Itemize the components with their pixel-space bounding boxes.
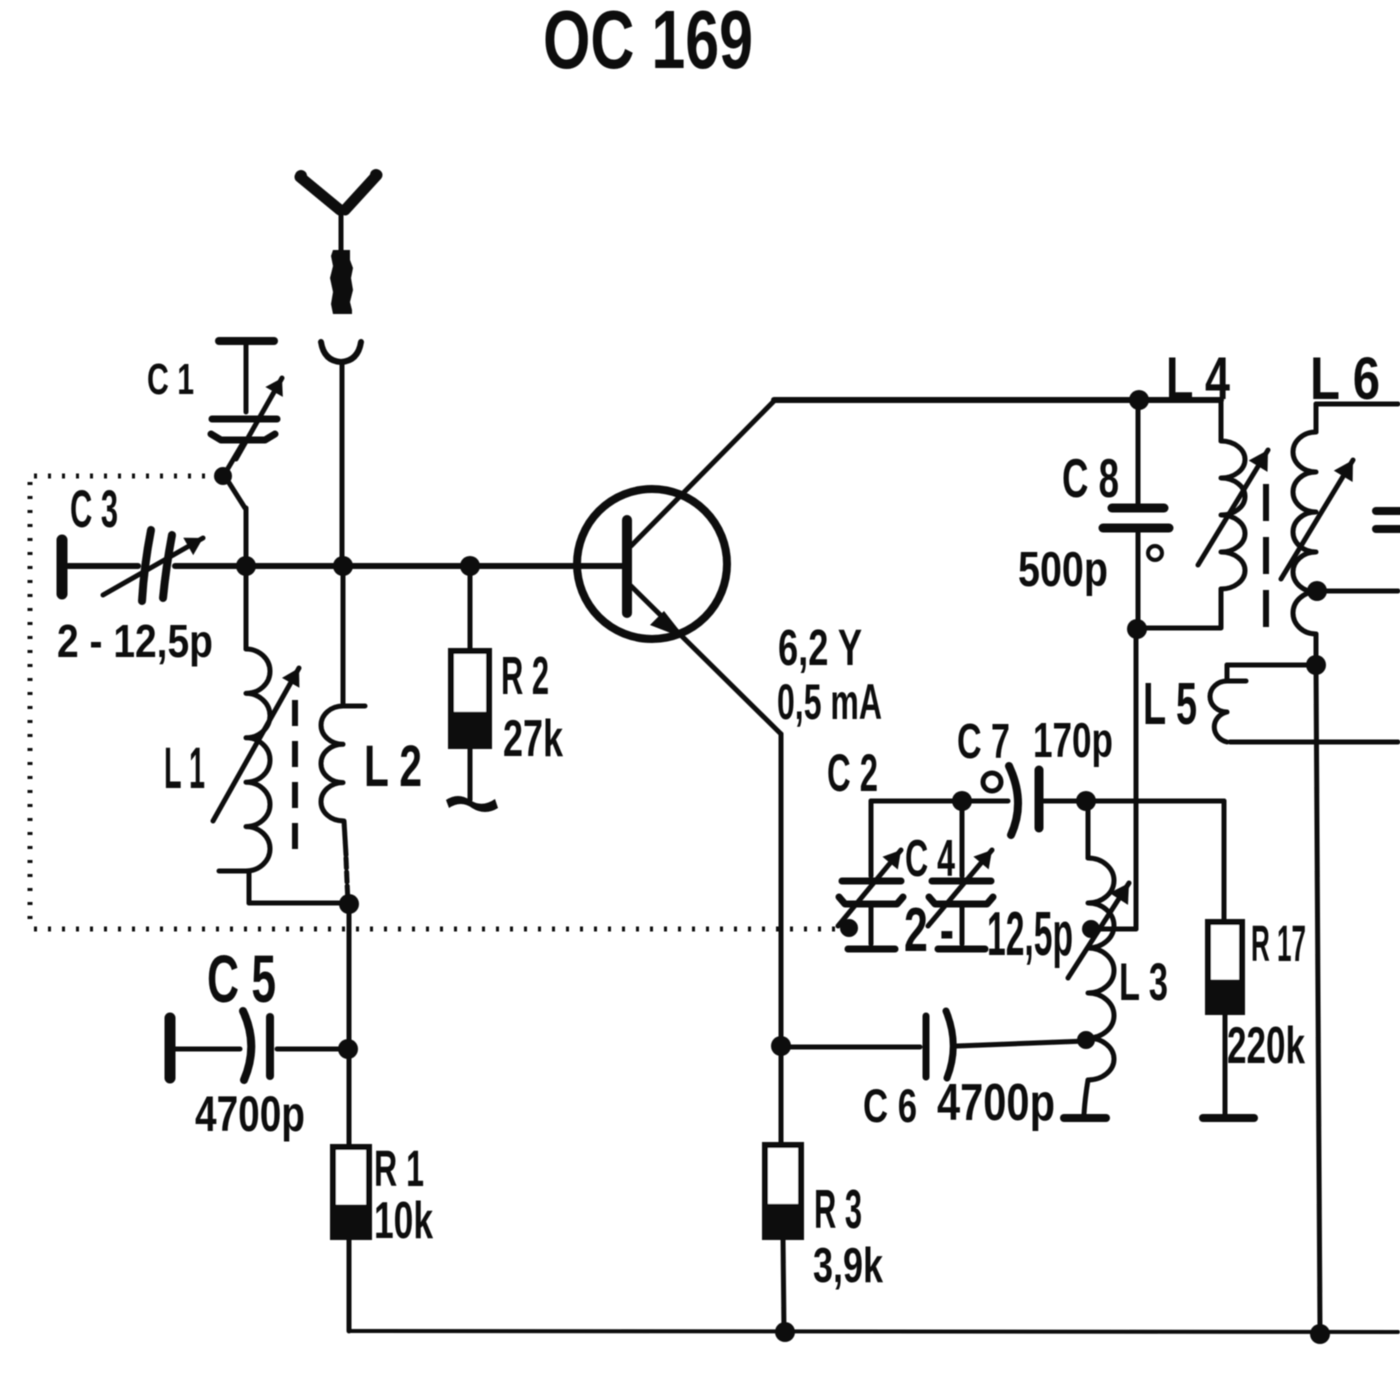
svg-text:C 1: C 1 [147,355,194,404]
svg-text:L 2: L 2 [364,734,422,799]
svg-text:220k: 220k [1227,1017,1305,1075]
svg-text:R 2: R 2 [501,646,549,706]
svg-text:R 17: R 17 [1251,915,1306,972]
svg-text:C 7: C 7 [957,715,1010,769]
svg-text:10k: 10k [374,1192,433,1250]
svg-text:C 3: C 3 [70,480,118,539]
svg-text:C 6: C 6 [863,1079,917,1132]
svg-text:0,5 mA: 0,5 mA [777,674,882,730]
svg-text:R 1: R 1 [374,1140,424,1197]
svg-text:C 8: C 8 [1062,447,1119,509]
svg-text:L 6: L 6 [1310,345,1380,412]
svg-text:C 2: C 2 [827,744,878,803]
svg-text:2 -: 2 - [904,896,954,965]
svg-text:3,9k: 3,9k [813,1239,884,1293]
svg-text:12,5p: 12,5p [987,900,1073,969]
svg-text:4700p: 4700p [195,1086,305,1142]
svg-text:4700p: 4700p [937,1074,1055,1132]
svg-text:R 3: R 3 [814,1178,862,1240]
svg-text:C 4: C 4 [905,830,955,888]
svg-text:L 5: L 5 [1143,671,1197,737]
svg-text:6,2 Y: 6,2 Y [778,619,862,676]
svg-text:L 4: L 4 [1166,345,1230,412]
svg-text:C 5: C 5 [207,942,276,1017]
svg-text:L 1: L 1 [164,736,205,801]
svg-text:2 - 12,5p: 2 - 12,5p [57,615,213,667]
svg-text:27k: 27k [503,710,563,768]
svg-text:OC 169: OC 169 [543,0,753,86]
svg-text:170p: 170p [1033,714,1113,768]
svg-text:500p: 500p [1018,543,1108,597]
svg-text:L 3: L 3 [1119,953,1168,1012]
